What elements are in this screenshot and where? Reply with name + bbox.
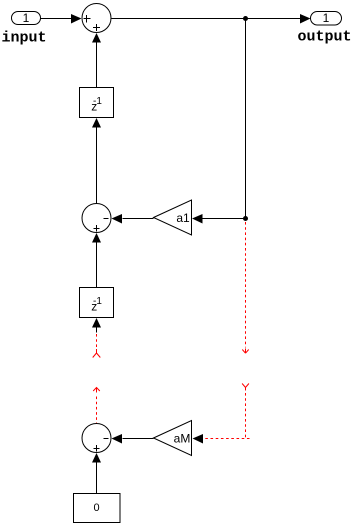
- wire gain a1 to S2: [112, 214, 154, 224]
- svg-text:a1: a1: [176, 211, 190, 225]
- wire input to sum S1: [41, 14, 82, 24]
- svg-text:1: 1: [23, 11, 30, 25]
- svg-text:output: output: [298, 29, 352, 46]
- svg-text:aM: aM: [174, 432, 191, 446]
- unit delay Z1: [80, 88, 114, 118]
- gain a1: [154, 200, 192, 235]
- svg-text:-1: -1: [93, 296, 102, 307]
- unit delay Z2: [80, 288, 114, 318]
- wire Z2 to S2: [92, 233, 101, 288]
- wire node A down to gain a1: [192, 19, 246, 224]
- sum S1: [82, 4, 111, 33]
- output port 1: [311, 11, 342, 25]
- svg-text:-1: -1: [93, 96, 102, 107]
- sum S2: [82, 204, 111, 233]
- dashed wire S3 output upward continuation: [93, 388, 100, 424]
- wire Z1 to S1: [92, 33, 101, 88]
- wire S2 to Z1: [92, 118, 101, 204]
- svg-text:0: 0: [93, 502, 99, 514]
- wire constant 0 to S3: [92, 453, 101, 494]
- wire gain aM to S3: [112, 434, 154, 444]
- label output: [298, 29, 352, 46]
- svg-text:input: input: [2, 30, 47, 47]
- constant 0: [74, 494, 121, 523]
- wire into Z2 from below (continuation): [92, 318, 101, 349]
- dashed wire down to gain aM: [193, 393, 250, 444]
- dashed wire node A continuation downward: [242, 222, 248, 353]
- label input: [2, 30, 47, 47]
- wire S1 to output, junction A: [112, 14, 311, 24]
- node A junction dot: [243, 16, 248, 21]
- sum S3: [82, 424, 111, 453]
- continuation mark Y (above gain aM feed): [242, 384, 249, 391]
- svg-text:1: 1: [323, 11, 330, 25]
- continuation mark fork (below Z2): [93, 349, 101, 358]
- input port 1: [12, 11, 41, 25]
- gain aM: [154, 421, 192, 456]
- node B junction dot: [243, 216, 248, 221]
